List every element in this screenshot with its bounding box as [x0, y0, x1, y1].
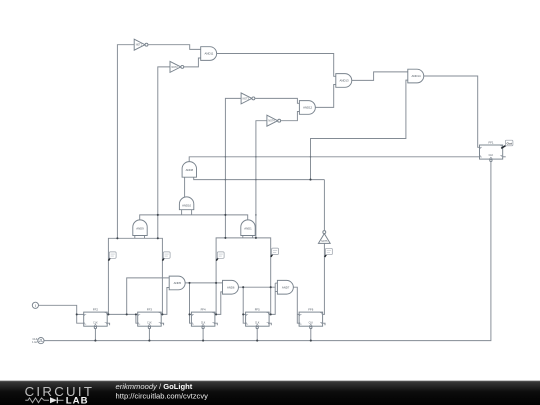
wire AND14 output to FF1 D [423, 76, 480, 147]
logo resistor zigzag [25, 398, 49, 403]
wire FF2 clock drop [94, 329, 96, 341]
inverter NOT5 pointing up [318, 231, 330, 244]
wire clock bus to all flip-flop clocks and FF1 [44, 161, 491, 341]
and-gate AND14 [408, 69, 424, 83]
wire NOT5 output riser [323, 180, 325, 231]
wire AND5 output to AND6 in1 [184, 282, 223, 284]
svg-text:LAB: LAB [66, 396, 89, 405]
wire FF4.Q / FF5.Q bus above flip-flops [216, 238, 271, 287]
and-gate AND13 [336, 74, 352, 88]
wire AND5 in2 riser from FF3.Q row [161, 288, 169, 315]
probe flag on FF3.Q [163, 252, 171, 261]
inverter NOT3 [241, 93, 255, 104]
wire AND12 output to AND13 in2 [315, 85, 336, 108]
svg-text:FF1: FF1 [489, 141, 494, 145]
wire NOT2 output to AND11 in2 [184, 58, 201, 67]
wire AND14 in2 from NOT5 output line [311, 80, 408, 180]
flip-flop FF1 [480, 141, 503, 162]
wire FF2.Q / FF3.Q bus above flip-flops [108, 238, 162, 314]
svg-text:NOT1: NOT1 [136, 45, 143, 47]
wire NOT3 input from AND1 output bus [225, 98, 241, 238]
svg-text:http://circuitlab.com/cvtzcvy: http://circuitlab.com/cvtzcvy [116, 392, 209, 401]
wire FF6.Q riser to NOT5 input [323, 244, 325, 315]
wire FF6 Qbar stub [323, 323, 325, 325]
svg-text:FF3: FF3 [147, 308, 152, 312]
probe flag on FF2.Q [109, 252, 117, 261]
wire FF2.Q to FF3.D with AND5 in1 tap [107, 313, 138, 315]
wire FF1 Qbar stub [503, 156, 506, 158]
wire AND5 output drop to FF4 D and EN [190, 283, 192, 323]
and-gate AND5 [169, 276, 185, 290]
svg-text:AND6: AND6 [227, 285, 235, 289]
svg-text:I: I [35, 303, 36, 308]
wire FF2 Qbar stub [107, 323, 109, 325]
wire FF4 Qbar stub [215, 323, 217, 325]
svg-text:AND1: AND1 [244, 227, 252, 231]
FOOTER [0, 381, 540, 405]
flip-flop FF6 [299, 308, 323, 329]
and-gate AND6 [223, 280, 239, 294]
svg-text:CLK: CLK [309, 322, 314, 324]
svg-text:FF4: FF4 [201, 308, 206, 312]
flip-flop FF3 [138, 308, 162, 329]
svg-text:FF2: FF2 [93, 308, 98, 312]
wire NOT1 input from FF2.Q bus [117, 45, 134, 239]
wire AND8 output bus to FF1 enable [189, 157, 479, 162]
svg-text:AND10: AND10 [182, 204, 191, 208]
svg-text:FF5: FF5 [255, 308, 260, 312]
flip-flop FF5 [246, 308, 270, 329]
node junction dots [76, 156, 312, 342]
flip-flop FF4 [191, 308, 215, 329]
wire FF5 Qbar stub [269, 323, 271, 325]
wire AND9 and AND1 outputs bus to AND10 inputs [140, 215, 248, 220]
svg-text:CLK: CLK [201, 322, 206, 324]
flip-flop FF2 [84, 308, 108, 329]
wire FF4.Q riser lower part [215, 283, 217, 315]
probe flag on FF4.Q [216, 252, 224, 261]
wire NOT4 input from FF5.Q bus [256, 121, 267, 238]
svg-text:NOT4: NOT4 [268, 121, 275, 123]
inverter NOT2 [170, 61, 184, 72]
and-gate AND11 [201, 47, 217, 61]
wire NOT3 output to AND12 in1 [255, 98, 299, 103]
svg-text:CLK: CLK [93, 322, 98, 324]
clock source CLK 1 Hz [32, 337, 44, 344]
svg-text:NOT2: NOT2 [172, 67, 179, 69]
wire AND8 in1 from AND10 output [184, 177, 186, 197]
wire NOT2 input from AND9 output bus [158, 67, 170, 238]
svg-text:AND12: AND12 [303, 106, 312, 110]
wire AND11 output to AND13 in1 [216, 54, 336, 77]
wire AND9 input stubs [134, 236, 136, 239]
svg-text:CLK: CLK [147, 322, 152, 324]
wire NOT4 output to AND12 in2 [281, 112, 300, 121]
wire AND13 output to AND14 in1 [351, 72, 408, 81]
svg-text:Out: Out [507, 142, 512, 146]
wire FF5 clock drop [256, 329, 258, 341]
svg-text:AND11: AND11 [204, 52, 213, 56]
wire AND7 output drop to FF6 D and EN [292, 287, 299, 323]
inverter NOT4 [267, 115, 281, 126]
wire FF3 clock drop [148, 329, 150, 341]
svg-text:AND7: AND7 [282, 285, 290, 289]
and-gate AND9 pointing up [133, 220, 147, 236]
svg-text:AND8: AND8 [186, 168, 194, 172]
svg-text:AND13: AND13 [339, 79, 348, 83]
wire FF4 clock drop [202, 329, 204, 341]
and-gate AND1 pointing up [241, 220, 255, 236]
wire FF5.Q riser lower part [270, 287, 272, 314]
wire FF6 clock drop [310, 329, 312, 341]
wire terminal I to FF2 D and EN [39, 305, 84, 323]
wire AND6 output drop to FF5 D and EN [243, 287, 245, 323]
wire NOT1 output to AND11 in1 [148, 45, 201, 50]
svg-text:erikmmoody / GoLight: erikmmoody / GoLight [116, 382, 193, 391]
probe flag on FF5.Q [271, 248, 279, 257]
inverter NOT1 [134, 39, 148, 50]
and-gate AND12 [299, 101, 315, 115]
wire AND5 in1 riser from FF2.Q row [127, 278, 170, 315]
svg-text:CLK: CLK [489, 155, 494, 157]
wire AND7 in2 riser from FF5.Q row [269, 283, 275, 314]
svg-text:NOT5: NOT5 [321, 241, 328, 243]
probe flag on FF6.Q [325, 248, 333, 257]
wire AND6 output to AND7 in1 with jog [237, 286, 275, 288]
svg-text:NOT3: NOT3 [243, 98, 250, 100]
svg-text:1 Hz: 1 Hz [32, 340, 38, 344]
svg-text:AND14: AND14 [411, 74, 420, 78]
wire AND8 in2 line from NOT5 output [194, 177, 325, 179]
wire AND1 input stubs [242, 236, 244, 238]
svg-text:AND9: AND9 [136, 227, 144, 231]
and-gate AND10 pointing up [179, 197, 193, 210]
svg-text:AND5: AND5 [174, 281, 182, 285]
wire AND10 input stubs [181, 210, 183, 215]
Out label flag on FF1.Q [501, 140, 513, 148]
and-gate AND7 [277, 280, 293, 294]
logo diode symbol [50, 397, 57, 403]
svg-text:CLK: CLK [255, 322, 260, 324]
svg-text:FF6: FF6 [308, 308, 313, 312]
wire FF3 Qbar stub [161, 323, 163, 325]
wire AND6 in2 riser from FF4.Q row [215, 292, 223, 315]
terminal I input [32, 302, 38, 308]
and-gate AND8 pointing up [182, 162, 196, 178]
